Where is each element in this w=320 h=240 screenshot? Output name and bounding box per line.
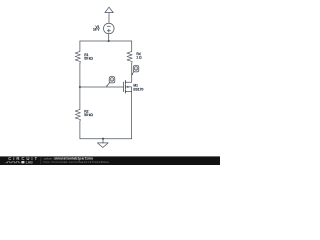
- svg-text:CIRCUIT: CIRCUIT: [8, 156, 39, 161]
- resistor R2: [75, 109, 80, 121]
- junction node ground: [102, 138, 104, 140]
- wire top rail: [80, 40, 132, 42]
- probe needle tip drain: [132, 74, 134, 76]
- transistor M1 gate bar: [122, 82, 124, 92]
- CircuitLab logo: [5, 156, 39, 164]
- wire drain vertical: [131, 63, 133, 82]
- wire source vertical: [131, 91, 133, 138]
- svg-text:18 V: 18 V: [93, 27, 100, 31]
- wire triangle to V1: [108, 13, 110, 24]
- wire V1 to top rail: [108, 34, 110, 41]
- wire left branch upper: [79, 41, 81, 51]
- resistor R1: [75, 51, 80, 63]
- voltage source V1: [104, 23, 115, 34]
- wire bottom rail: [80, 138, 132, 140]
- probe glyph gate: [111, 79, 113, 82]
- svg-text:http://circuitlab.com/c6aebzn3: http://circuitlab.com/c6aebzn37fxdw8mke: [44, 160, 110, 164]
- wire left branch middle: [79, 63, 81, 109]
- VCC supply triangle: [105, 7, 113, 12]
- transistor M1 source lead: [126, 90, 132, 92]
- wire gate node horizontal: [80, 86, 124, 88]
- transistor M1 drain lead: [126, 81, 132, 83]
- wire left branch lower: [79, 121, 81, 139]
- svg-text:1 Ω: 1 Ω: [136, 56, 142, 60]
- ground: [102, 139, 104, 143]
- wire right branch upper: [131, 41, 133, 51]
- svg-text:50 kΩ: 50 kΩ: [84, 113, 93, 117]
- watermark bar: [0, 156, 220, 165]
- probe icon on drain: [133, 66, 139, 72]
- probe glyph drain: [135, 68, 137, 71]
- junction node top: [108, 40, 110, 42]
- probe needle tip gate: [106, 85, 108, 87]
- watermark text line 1: [44, 156, 110, 164]
- probe icon on gate: [109, 77, 115, 83]
- svg-text:LAB: LAB: [26, 161, 34, 165]
- resistor Rd: [127, 51, 132, 63]
- junction node gate: [79, 86, 81, 88]
- transistor M1 channel segments: [124, 81, 126, 84]
- transistor M1 bulk lead: [127, 87, 132, 92]
- svg-text:BS170: BS170: [133, 87, 143, 91]
- watermark separator: [40, 157, 42, 164]
- svg-text:50 kΩ: 50 kΩ: [84, 57, 93, 61]
- transistor M1 arrow: [126, 86, 128, 88]
